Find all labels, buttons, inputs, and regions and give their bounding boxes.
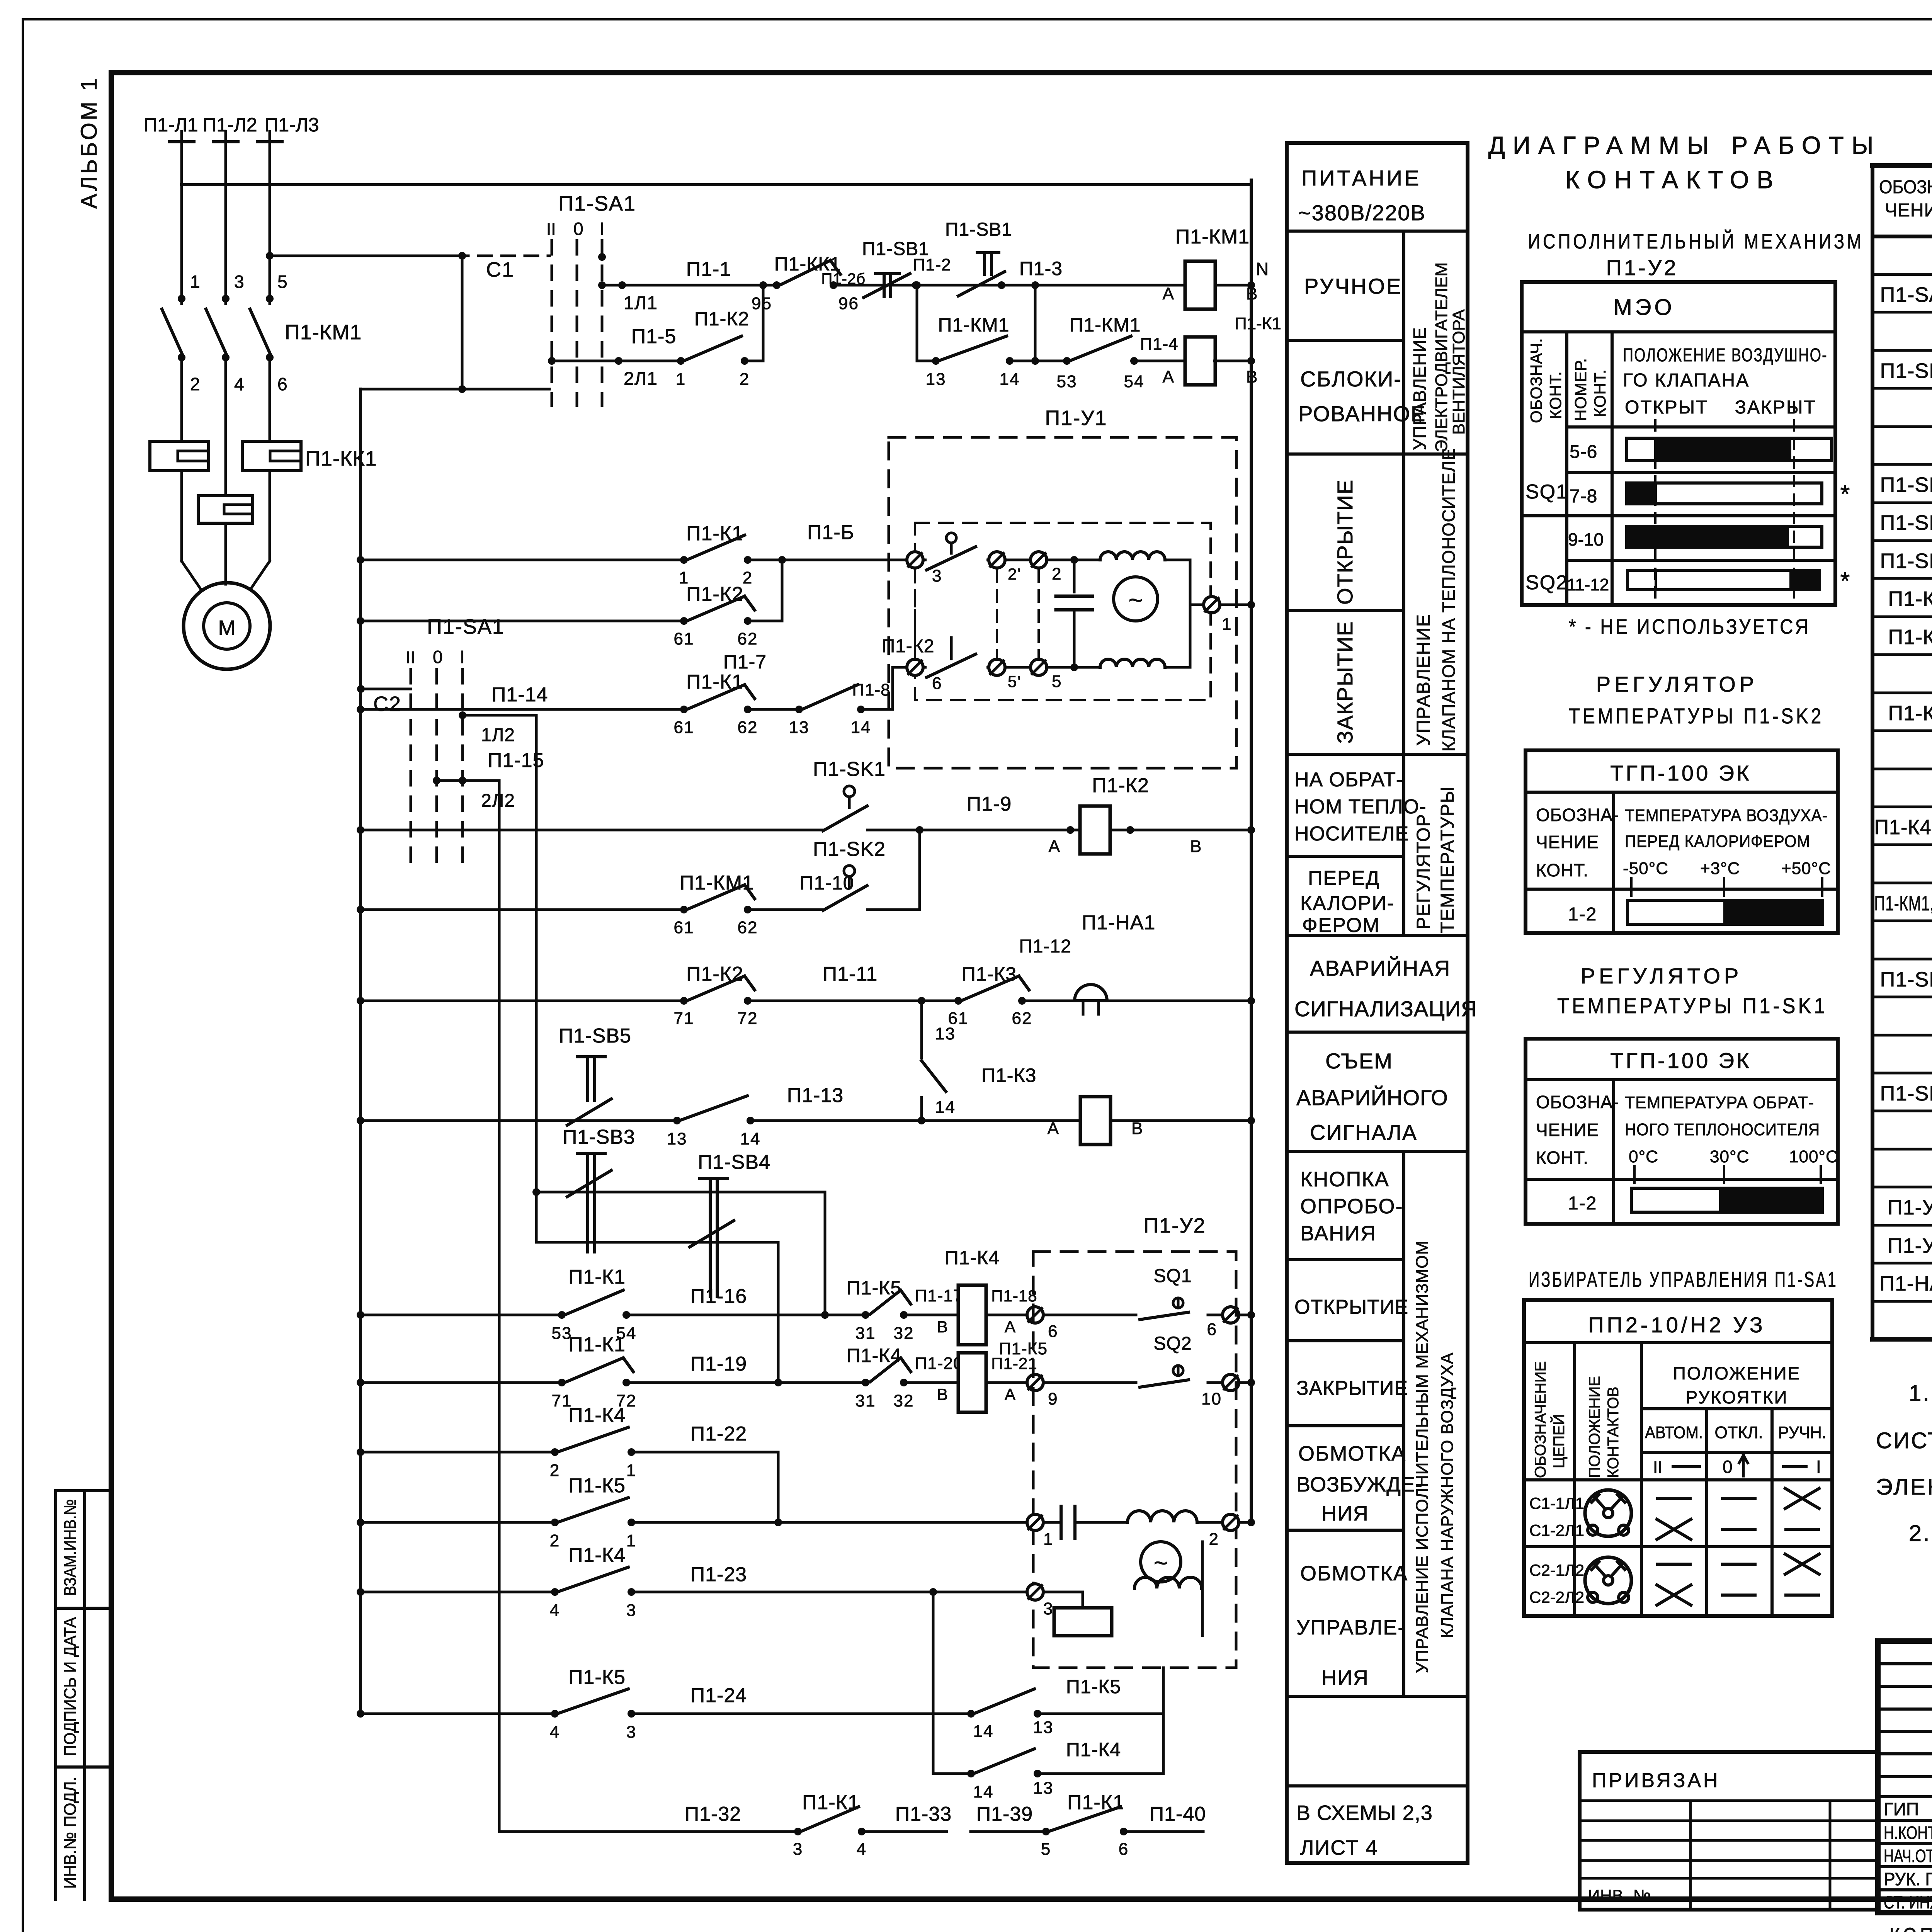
svg-text:КНОПКА: КНОПКА bbox=[1300, 1168, 1389, 1191]
svg-text:КОПИРОВАЛ БАБИНА: КОПИРОВАЛ БАБИНА bbox=[1889, 1923, 1932, 1932]
svg-text:ТЕМПЕРАТУРЫ П1-SK2: ТЕМПЕРАТУРЫ П1-SK2 bbox=[1569, 704, 1824, 728]
svg-text:-50°С: -50°С bbox=[1623, 859, 1668, 878]
svg-text:ПИТАНИЕ: ПИТАНИЕ bbox=[1301, 166, 1421, 190]
svg-text:АЛЬБОМ 1: АЛЬБОМ 1 bbox=[77, 76, 102, 209]
svg-text:ПЕРЕД: ПЕРЕД bbox=[1308, 867, 1380, 889]
svg-text:ЧЕНИЕ: ЧЕНИЕ bbox=[1885, 200, 1932, 221]
svg-text:ТЕМПЕРАТУРЫ: ТЕМПЕРАТУРЫ bbox=[1437, 786, 1458, 933]
svg-text:*: * bbox=[1840, 480, 1850, 508]
svg-text:МЭО: МЭО bbox=[1613, 295, 1675, 320]
svg-text:61: 61 bbox=[674, 629, 694, 648]
svg-text:П1-НА1: П1-НА1 bbox=[1879, 1272, 1932, 1295]
svg-text:НОМ ТЕПЛО-: НОМ ТЕПЛО- bbox=[1294, 796, 1426, 818]
svg-text:1-2: 1-2 bbox=[1568, 1193, 1597, 1214]
svg-text:II: II bbox=[406, 648, 415, 667]
svg-text:КОНТ.: КОНТ. bbox=[1546, 371, 1565, 419]
svg-text:1: 1 bbox=[190, 272, 201, 292]
svg-text:72: 72 bbox=[738, 1009, 758, 1028]
svg-text:10: 10 bbox=[1201, 1389, 1222, 1408]
svg-text:6: 6 bbox=[1048, 1322, 1058, 1341]
svg-text:ПРИВЯЗАН: ПРИВЯЗАН bbox=[1592, 1769, 1720, 1792]
svg-text:ВЕНТИЛЯТОРА: ВЕНТИЛЯТОРА bbox=[1449, 309, 1468, 435]
svg-text:П1-SK1: П1-SK1 bbox=[813, 758, 886, 781]
svg-text:С2-1Л2: С2-1Л2 bbox=[1529, 1561, 1584, 1579]
svg-text:П1-К2: П1-К2 bbox=[1092, 774, 1149, 797]
svg-text:32: 32 bbox=[894, 1391, 914, 1410]
svg-text:П1-К4: П1-К4 bbox=[568, 1404, 626, 1427]
svg-text:ИНВ. №: ИНВ. № bbox=[1588, 1886, 1651, 1905]
svg-text:П1-Б: П1-Б bbox=[807, 521, 854, 544]
svg-text:2': 2' bbox=[1008, 565, 1021, 583]
svg-text:ЧЕНИЕ: ЧЕНИЕ bbox=[1536, 1120, 1599, 1140]
svg-text:П1-К5: П1-К5 bbox=[568, 1475, 626, 1497]
svg-text:61: 61 bbox=[674, 718, 694, 737]
svg-text:РУЧН.: РУЧН. bbox=[1778, 1423, 1827, 1442]
svg-text:62: 62 bbox=[738, 918, 758, 937]
svg-text:13: 13 bbox=[1033, 1718, 1054, 1737]
svg-text:П1-К2: П1-К2 bbox=[686, 963, 743, 985]
svg-text:6: 6 bbox=[1119, 1840, 1129, 1859]
svg-text:6: 6 bbox=[277, 374, 288, 394]
svg-text:SQ2: SQ2 bbox=[1153, 1333, 1192, 1354]
svg-text:АВАРИЙНОГО: АВАРИЙНОГО bbox=[1296, 1085, 1448, 1110]
svg-text:ВЗАМ.ИНВ.№: ВЗАМ.ИНВ.№ bbox=[61, 1499, 80, 1596]
svg-text:П1-КМ1: П1-КМ1 bbox=[285, 321, 362, 344]
svg-text:4: 4 bbox=[550, 1601, 560, 1620]
svg-text:14: 14 bbox=[935, 1098, 956, 1117]
svg-text:НИЯ: НИЯ bbox=[1321, 1666, 1369, 1689]
svg-text:КОНТ.: КОНТ. bbox=[1536, 1148, 1588, 1168]
svg-text:П1-У2: П1-У2 bbox=[1143, 1214, 1206, 1237]
svg-text:П1-33: П1-33 bbox=[895, 1803, 952, 1825]
svg-text:ПОДПИСЬ И ДАТА: ПОДПИСЬ И ДАТА bbox=[61, 1617, 80, 1756]
svg-text:ТГП-100 ЭК: ТГП-100 ЭК bbox=[1610, 1048, 1751, 1073]
svg-text:ОБМОТКА: ОБМОТКА bbox=[1298, 1442, 1406, 1465]
svg-text:П1-К5: П1-К5 bbox=[568, 1666, 626, 1689]
svg-text:+3°С: +3°С bbox=[1700, 859, 1740, 878]
svg-text:ЧЕНИЕ: ЧЕНИЕ bbox=[1536, 832, 1599, 852]
svg-text:П1-К1: П1-К1 bbox=[1067, 1791, 1124, 1814]
svg-text:П1-К1: П1-К1 bbox=[1235, 314, 1281, 333]
svg-text:5-6: 5-6 bbox=[1570, 442, 1597, 462]
svg-text:П1-К4: П1-К4 bbox=[945, 1247, 1000, 1269]
svg-text:П1-SB1: П1-SB1 bbox=[1880, 549, 1932, 573]
svg-text:5: 5 bbox=[277, 272, 288, 292]
svg-text:П1-К1: П1-К1 bbox=[568, 1266, 626, 1288]
svg-text:2: 2 bbox=[740, 370, 750, 389]
svg-text:6: 6 bbox=[932, 674, 942, 693]
svg-text:П1-К2: П1-К2 bbox=[686, 583, 743, 605]
svg-text:2: 2 bbox=[743, 568, 753, 587]
svg-text:ТЕМПЕРАТУРА ОБРАТ-: ТЕМПЕРАТУРА ОБРАТ- bbox=[1625, 1093, 1814, 1112]
svg-text:П1-КМ1,КК1: П1-КМ1,КК1 bbox=[1874, 892, 1932, 915]
svg-text:П1-SB3: П1-SB3 bbox=[563, 1126, 635, 1148]
svg-text:0: 0 bbox=[433, 647, 443, 667]
svg-text:П1-К3: П1-К3 bbox=[1888, 702, 1932, 725]
svg-text:СЪЕМ: СЪЕМ bbox=[1325, 1049, 1393, 1073]
svg-text:ПОЛОЖЕНИЕ: ПОЛОЖЕНИЕ bbox=[1673, 1363, 1801, 1383]
svg-text:ТГП-100 ЭК: ТГП-100 ЭК bbox=[1610, 761, 1751, 785]
svg-text:ОТКРЫТ: ОТКРЫТ bbox=[1625, 397, 1708, 418]
svg-text:С1-2Л1: С1-2Л1 bbox=[1529, 1521, 1584, 1539]
svg-text:ОТКРЫТИЕ: ОТКРЫТИЕ bbox=[1294, 1296, 1408, 1318]
svg-text:П1-SA1: П1-SA1 bbox=[427, 615, 505, 638]
svg-text:3: 3 bbox=[932, 566, 942, 585]
svg-text:ОБОЗНА-: ОБОЗНА- bbox=[1536, 805, 1619, 825]
svg-text:П1-1: П1-1 bbox=[686, 258, 731, 281]
svg-text:П1-24: П1-24 bbox=[690, 1684, 747, 1707]
svg-text:62: 62 bbox=[1012, 1009, 1032, 1028]
svg-text:УПРАВЛЕ-: УПРАВЛЕ- bbox=[1296, 1616, 1405, 1639]
svg-text:А: А bbox=[1048, 1119, 1060, 1138]
svg-text:1: 1 bbox=[626, 1461, 636, 1480]
svg-text:П1-SB4: П1-SB4 bbox=[1880, 511, 1932, 534]
svg-text:РЕГУЛЯТОР: РЕГУЛЯТОР bbox=[1581, 964, 1743, 988]
svg-text:ВОЗБУЖДЕ-: ВОЗБУЖДЕ- bbox=[1296, 1473, 1423, 1496]
svg-text:ИСПОЛНИТЕЛЬНЫЙ МЕХАНИЗМ: ИСПОЛНИТЕЛЬНЫЙ МЕХАНИЗМ bbox=[1528, 230, 1864, 253]
svg-text:Н.КОНТР.: Н.КОНТР. bbox=[1884, 1823, 1932, 1843]
svg-text:С2: С2 bbox=[373, 692, 401, 716]
svg-text:П1-21: П1-21 bbox=[991, 1354, 1037, 1372]
svg-text:ЗАКРЫТ: ЗАКРЫТ bbox=[1735, 397, 1816, 418]
svg-text:П1-17: П1-17 bbox=[915, 1286, 963, 1305]
svg-text:ВАНИЯ: ВАНИЯ bbox=[1300, 1222, 1376, 1245]
svg-text:П1-SA1: П1-SA1 bbox=[558, 192, 636, 215]
svg-text:31: 31 bbox=[855, 1391, 876, 1410]
svg-text:П1-4: П1-4 bbox=[1140, 335, 1178, 354]
svg-text:ГИП: ГИП bbox=[1884, 1799, 1919, 1819]
svg-text:53: 53 bbox=[1057, 372, 1077, 391]
svg-text:П1-К1: П1-К1 bbox=[686, 522, 743, 545]
svg-text:2Л1: 2Л1 bbox=[624, 369, 658, 389]
svg-text:В: В bbox=[1246, 284, 1258, 303]
svg-text:1: 1 bbox=[676, 370, 686, 389]
svg-text:П1-SB3: П1-SB3 bbox=[1880, 473, 1932, 497]
svg-text:31: 31 bbox=[855, 1324, 876, 1343]
svg-text:АВТОМ.: АВТОМ. bbox=[1645, 1423, 1703, 1442]
svg-text:30°С: 30°С bbox=[1710, 1147, 1749, 1166]
svg-text:П1-7: П1-7 bbox=[723, 651, 767, 673]
svg-text:С1-1Л1: С1-1Л1 bbox=[1529, 1494, 1584, 1512]
svg-text:П1-К2: П1-К2 bbox=[882, 636, 935, 656]
svg-text:П1-К2: П1-К2 bbox=[1888, 626, 1932, 649]
svg-text:2Л2: 2Л2 bbox=[481, 791, 515, 811]
svg-text:П1-19: П1-19 bbox=[690, 1353, 747, 1375]
svg-text:4: 4 bbox=[234, 374, 245, 394]
svg-text:14: 14 bbox=[1000, 370, 1020, 389]
svg-text:П1-13: П1-13 bbox=[787, 1084, 844, 1107]
svg-text:3: 3 bbox=[626, 1601, 636, 1620]
svg-text:П1-КМ1: П1-КМ1 bbox=[680, 872, 754, 894]
svg-text:ПП2-10/Н2 УЗ: ПП2-10/Н2 УЗ bbox=[1588, 1313, 1765, 1337]
svg-text:* - НЕ ИСПОЛЬЗУЕТСЯ: * - НЕ ИСПОЛЬЗУЕТСЯ bbox=[1569, 615, 1810, 638]
svg-text:П1-К3: П1-К3 bbox=[981, 1065, 1036, 1086]
svg-text:П1-SK2: П1-SK2 bbox=[1880, 968, 1932, 991]
svg-text:П1-К4,К5: П1-К4,К5 bbox=[1874, 816, 1932, 839]
svg-text:ЭЛЕКТРОДВИГАТЕЛЕМ: ЭЛЕКТРОДВИГАТЕЛЕМ bbox=[1432, 262, 1451, 452]
svg-text:М: М bbox=[218, 616, 236, 639]
svg-text:1Л1: 1Л1 bbox=[624, 293, 658, 313]
svg-text:П1-SB5: П1-SB5 bbox=[1880, 359, 1932, 383]
svg-text:~: ~ bbox=[1128, 586, 1143, 614]
svg-text:ПОЛОЖЕНИЕ: ПОЛОЖЕНИЕ bbox=[1586, 1376, 1603, 1478]
svg-text:П1-SK2: П1-SK2 bbox=[813, 838, 886, 861]
svg-text:П1-НА1: П1-НА1 bbox=[1082, 912, 1156, 934]
svg-text:2: 2 bbox=[1209, 1530, 1219, 1549]
svg-text:С1: С1 bbox=[486, 258, 514, 281]
svg-text:54: 54 bbox=[1124, 372, 1145, 391]
svg-text:РУК. ГР.: РУК. ГР. bbox=[1884, 1869, 1932, 1889]
svg-text:II: II bbox=[546, 220, 556, 239]
svg-text:РУКОЯТКИ: РУКОЯТКИ bbox=[1685, 1387, 1788, 1407]
svg-text:П1-18: П1-18 bbox=[991, 1287, 1037, 1305]
svg-text:А: А bbox=[1005, 1385, 1016, 1403]
svg-text:9-10: 9-10 bbox=[1568, 529, 1604, 549]
svg-text:ТЕМПЕРАТУРА ВОЗДУХА-: ТЕМПЕРАТУРА ВОЗДУХА- bbox=[1625, 806, 1828, 825]
svg-text:13: 13 bbox=[667, 1129, 687, 1148]
svg-text:П1-22: П1-22 bbox=[690, 1423, 747, 1445]
svg-text:1Л2: 1Л2 bbox=[481, 725, 515, 745]
svg-text:П1-КМ1: П1-КМ1 bbox=[1175, 226, 1250, 248]
svg-text:П1-2: П1-2 bbox=[913, 255, 951, 274]
svg-text:14: 14 bbox=[973, 1722, 994, 1741]
svg-text:П1-SB5: П1-SB5 bbox=[559, 1025, 631, 1047]
svg-text:ОТКЛ.: ОТКЛ. bbox=[1715, 1423, 1763, 1442]
svg-text:РЕГУЛЯТОР: РЕГУЛЯТОР bbox=[1413, 813, 1434, 929]
svg-text:N: N bbox=[1256, 259, 1269, 279]
svg-text:11-12: 11-12 bbox=[1567, 575, 1609, 594]
svg-text:62: 62 bbox=[738, 718, 758, 737]
svg-text:П1-SB4: П1-SB4 bbox=[698, 1151, 770, 1173]
svg-text:П1-20: П1-20 bbox=[915, 1354, 963, 1373]
svg-text:SQ2: SQ2 bbox=[1526, 571, 1568, 594]
svg-text:НОГО ТЕПЛОНОСИТЕЛЯ: НОГО ТЕПЛОНОСИТЕЛЯ bbox=[1625, 1120, 1820, 1139]
svg-text:1: 1 bbox=[1222, 615, 1232, 634]
svg-text:П1-К4: П1-К4 bbox=[568, 1544, 626, 1566]
svg-text:П1-9: П1-9 bbox=[967, 793, 1012, 815]
svg-text:П1-SB1: П1-SB1 bbox=[945, 219, 1012, 240]
svg-text:ДИАГРАММЫ РАБОТЫ: ДИАГРАММЫ РАБОТЫ bbox=[1488, 131, 1881, 159]
svg-text:П1-SA1: П1-SA1 bbox=[1880, 283, 1932, 306]
svg-text:ФЕРОМ: ФЕРОМ bbox=[1302, 914, 1380, 937]
svg-text:*: * bbox=[1840, 567, 1850, 595]
svg-text:ЗАКРЫТИЕ: ЗАКРЫТИЕ bbox=[1296, 1377, 1408, 1400]
svg-text:П1-15: П1-15 bbox=[488, 749, 544, 772]
svg-text:УПРАВЛЕНИЕ: УПРАВЛЕНИЕ bbox=[1410, 327, 1430, 450]
svg-text:АВАРИЙНАЯ: АВАРИЙНАЯ bbox=[1310, 956, 1451, 980]
svg-text:П1-Л1: П1-Л1 bbox=[143, 114, 198, 136]
svg-text:SQ1: SQ1 bbox=[1526, 481, 1568, 503]
svg-text:96: 96 bbox=[838, 294, 859, 313]
svg-text:14: 14 bbox=[740, 1129, 761, 1148]
svg-text:П1-16: П1-16 bbox=[690, 1285, 747, 1308]
svg-text:П1-У1: П1-У1 bbox=[1888, 1196, 1932, 1219]
svg-text:СБЛОКИ-: СБЛОКИ- bbox=[1300, 367, 1402, 391]
svg-text:НОМЕР.: НОМЕР. bbox=[1571, 358, 1590, 421]
svg-text:П1-КМ1: П1-КМ1 bbox=[938, 314, 1010, 336]
svg-text:5: 5 bbox=[1052, 672, 1062, 691]
svg-text:ИНВ.№ ПОДЛ.: ИНВ.№ ПОДЛ. bbox=[61, 1777, 80, 1889]
svg-text:П1-23: П1-23 bbox=[690, 1563, 747, 1586]
svg-text:П1-У2: П1-У2 bbox=[1606, 255, 1679, 280]
svg-text:П1-КМ1: П1-КМ1 bbox=[1070, 314, 1141, 336]
svg-text:УПРАВЛЕНИЕ: УПРАВЛЕНИЕ bbox=[1413, 614, 1434, 746]
svg-text:1. СХЕМА ВЫПОЛНЕНА ДЛЯ СИСТЕМЫ: 1. СХЕМА ВЫПОЛНЕНА ДЛЯ СИСТЕМЫ П1 И АНАЛ… bbox=[1909, 1381, 1932, 1406]
svg-text:ЛИСТ 4: ЛИСТ 4 bbox=[1300, 1836, 1378, 1859]
svg-text:В: В bbox=[1190, 837, 1202, 856]
svg-text:РЕГУЛЯТОР: РЕГУЛЯТОР bbox=[1596, 672, 1758, 696]
svg-text:ИЗБИРАТЕЛЬ УПРАВЛЕНИЯ П1-SA1: ИЗБИРАТЕЛЬ УПРАВЛЕНИЯ П1-SA1 bbox=[1529, 1267, 1838, 1291]
svg-text:УПРАВЛЕНИЕ ИСПОЛНИТЕЛЬНЫМ МЕ: УПРАВЛЕНИЕ ИСПОЛНИТЕЛЬНЫМ МЕХАНИЗМОМ bbox=[1413, 1240, 1432, 1673]
svg-text:НИЯ: НИЯ bbox=[1321, 1502, 1369, 1525]
svg-text:П1-5: П1-5 bbox=[631, 325, 677, 348]
svg-text:3: 3 bbox=[1043, 1599, 1053, 1618]
svg-text:КОНТ.: КОНТ. bbox=[1536, 860, 1588, 880]
svg-text:П1-40: П1-40 bbox=[1150, 1803, 1206, 1825]
svg-text:П1-К1: П1-К1 bbox=[1888, 587, 1932, 611]
svg-text:П1-Л3: П1-Л3 bbox=[264, 114, 319, 136]
svg-text:2: 2 bbox=[190, 374, 201, 394]
svg-text:+50°С: +50°С bbox=[1781, 859, 1831, 878]
svg-text:ПЕРЕД КАЛОРИФЕРОМ: ПЕРЕД КАЛОРИФЕРОМ bbox=[1625, 832, 1810, 851]
svg-text:0: 0 bbox=[573, 219, 583, 239]
svg-text:II: II bbox=[1653, 1458, 1662, 1477]
svg-text:НОСИТЕЛЕ: НОСИТЕЛЕ bbox=[1294, 823, 1409, 845]
svg-text:ОБМОТКА: ОБМОТКА bbox=[1300, 1562, 1408, 1585]
svg-text:В: В bbox=[1246, 367, 1258, 386]
svg-text:~: ~ bbox=[1154, 1550, 1168, 1577]
svg-text:I: I bbox=[460, 647, 465, 667]
svg-text:СИСТЕМ П2,П3 С ЗАМЕНОЙ ИНДЕКСА: СИСТЕМ П2,П3 С ЗАМЕНОЙ ИНДЕКСА „П1" В ОБ… bbox=[1876, 1428, 1932, 1453]
svg-text:13: 13 bbox=[926, 370, 946, 389]
svg-text:КОНТАКТОВ: КОНТАКТОВ bbox=[1565, 166, 1781, 194]
svg-text:П1-У1: П1-У1 bbox=[1045, 406, 1107, 430]
svg-text:13: 13 bbox=[935, 1024, 956, 1043]
svg-text:4: 4 bbox=[857, 1840, 867, 1859]
svg-text:РОВАННОЕ: РОВАННОЕ bbox=[1298, 401, 1426, 426]
svg-text:П1-SK1: П1-SK1 bbox=[1880, 1082, 1932, 1105]
svg-text:П1-К4: П1-К4 bbox=[1066, 1739, 1121, 1760]
svg-text:КЛАПАНА НАРУЖНОГО ВОЗДУХА: КЛАПАНА НАРУЖНОГО ВОЗДУХА bbox=[1438, 1352, 1457, 1638]
svg-text:100°С: 100°С bbox=[1789, 1147, 1838, 1166]
svg-text:5': 5' bbox=[1008, 672, 1021, 690]
svg-text:ОТКРЫТИЕ: ОТКРЫТИЕ bbox=[1333, 479, 1357, 605]
svg-text:71: 71 bbox=[674, 1009, 694, 1028]
svg-text:~380В/220В: ~380В/220В bbox=[1298, 201, 1426, 225]
svg-text:П1-11: П1-11 bbox=[823, 963, 878, 985]
svg-text:3: 3 bbox=[234, 272, 245, 292]
svg-text:П1-14: П1-14 bbox=[492, 684, 548, 706]
svg-text:А: А bbox=[1163, 367, 1175, 386]
svg-text:0: 0 bbox=[1723, 1457, 1733, 1477]
svg-text:7-8: 7-8 bbox=[1570, 486, 1597, 507]
svg-text:П1-3: П1-3 bbox=[1019, 258, 1063, 279]
svg-text:SQ1: SQ1 bbox=[1153, 1266, 1192, 1286]
svg-text:3: 3 bbox=[793, 1840, 803, 1859]
svg-text:ОБОЗНАЧ.: ОБОЗНАЧ. bbox=[1527, 338, 1545, 423]
svg-text:9: 9 bbox=[1048, 1389, 1058, 1408]
svg-text:0°С: 0°С bbox=[1629, 1147, 1658, 1166]
svg-text:I: I bbox=[1816, 1457, 1821, 1477]
svg-text:СИГНАЛА: СИГНАЛА bbox=[1310, 1120, 1417, 1145]
svg-text:1: 1 bbox=[1043, 1530, 1053, 1549]
svg-text:П1-К5: П1-К5 bbox=[1066, 1676, 1121, 1697]
svg-text:СИГНАЛИЗАЦИЯ: СИГНАЛИЗАЦИЯ bbox=[1294, 997, 1477, 1021]
svg-text:ОБОЗНА-: ОБОЗНА- bbox=[1879, 177, 1932, 197]
svg-text:НА ОБРАТ-: НА ОБРАТ- bbox=[1294, 769, 1403, 791]
svg-text:П1-К1: П1-К1 bbox=[568, 1333, 626, 1356]
svg-text:П1-12: П1-12 bbox=[1019, 936, 1071, 957]
svg-text:ОБОЗНАЧЕНИЕ: ОБОЗНАЧЕНИЕ bbox=[1532, 1361, 1549, 1478]
svg-text:П1-2б: П1-2б bbox=[821, 270, 866, 287]
svg-text:П1-У2: П1-У2 bbox=[1888, 1234, 1932, 1257]
svg-text:ОБОЗНА-: ОБОЗНА- bbox=[1536, 1092, 1619, 1112]
svg-text:А: А bbox=[1049, 837, 1061, 856]
svg-text:П1-32: П1-32 bbox=[685, 1803, 741, 1825]
svg-text:П1-КК1: П1-КК1 bbox=[305, 447, 377, 470]
svg-text:ГО КЛАПАНА: ГО КЛАПАНА bbox=[1623, 370, 1750, 391]
svg-text:14: 14 bbox=[851, 718, 871, 737]
svg-text:С2-2Л2: С2-2Л2 bbox=[1529, 1588, 1584, 1606]
svg-text:ЭЛЕКТРОАППАРАТУРЫ НА „П2",„П3": ЭЛЕКТРОАППАРАТУРЫ НА „П2",„П3" bbox=[1876, 1475, 1932, 1500]
svg-text:П1-8: П1-8 bbox=[852, 680, 890, 699]
svg-text:ТЕМПЕРАТУРЫ П1-SK1: ТЕМПЕРАТУРЫ П1-SK1 bbox=[1557, 993, 1828, 1018]
svg-text:32: 32 bbox=[894, 1324, 914, 1343]
svg-text:ЦЕПЕЙ: ЦЕПЕЙ bbox=[1550, 1414, 1568, 1468]
svg-text:ОПРОБО-: ОПРОБО- bbox=[1300, 1195, 1403, 1218]
svg-text:РУЧНОЕ: РУЧНОЕ bbox=[1304, 274, 1402, 298]
svg-text:КОНТ.: КОНТ. bbox=[1591, 369, 1609, 417]
svg-text:В: В bbox=[937, 1385, 949, 1403]
svg-text:А: А bbox=[1005, 1318, 1016, 1336]
svg-text:СТ. ИНЖ.: СТ. ИНЖ. bbox=[1884, 1892, 1932, 1912]
svg-text:1-2: 1-2 bbox=[1568, 904, 1597, 925]
svg-text:6: 6 bbox=[1207, 1320, 1217, 1339]
svg-text:62: 62 bbox=[738, 629, 758, 648]
svg-text:ЗАКРЫТИЕ: ЗАКРЫТИЕ bbox=[1333, 621, 1357, 744]
svg-text:П1-39: П1-39 bbox=[976, 1803, 1033, 1825]
svg-text:ПОЛОЖЕНИЕ ВОЗДУШНО-: ПОЛОЖЕНИЕ ВОЗДУШНО- bbox=[1623, 345, 1828, 366]
svg-text:3: 3 bbox=[626, 1723, 636, 1742]
svg-text:1: 1 bbox=[626, 1531, 636, 1550]
svg-text:13: 13 bbox=[1033, 1779, 1054, 1798]
svg-text:4: 4 bbox=[550, 1723, 560, 1742]
svg-text:13: 13 bbox=[789, 718, 810, 737]
svg-text:КОНТАКТОВ: КОНТАКТОВ bbox=[1605, 1387, 1622, 1478]
svg-text:НАЧ.ОТД.: НАЧ.ОТД. bbox=[1884, 1846, 1932, 1866]
svg-text:КЛАПАНОМ НА ТЕПЛОНОСИТЕЛЕ: КЛАПАНОМ НА ТЕПЛОНОСИТЕЛЕ bbox=[1439, 448, 1459, 752]
svg-text:61: 61 bbox=[674, 918, 694, 937]
svg-text:2: 2 bbox=[1052, 565, 1062, 583]
svg-text:14: 14 bbox=[973, 1782, 994, 1801]
svg-text:I: I bbox=[600, 219, 605, 239]
svg-text:П1-Л2: П1-Л2 bbox=[202, 114, 257, 136]
svg-text:В СХЕМЫ 2,3: В СХЕМЫ 2,3 bbox=[1296, 1801, 1433, 1825]
svg-text:2. ПЕРЕЧЕНЬ ЭЛЕМЕНТОВ ДАН НА О: 2. ПЕРЕЧЕНЬ ЭЛЕМЕНТОВ ДАН НА ОДНУ СИСТЕМ… bbox=[1909, 1521, 1932, 1546]
svg-text:П1-К2: П1-К2 bbox=[694, 308, 749, 330]
svg-text:2: 2 bbox=[550, 1531, 560, 1550]
svg-text:А: А bbox=[1163, 284, 1175, 303]
svg-text:В: В bbox=[937, 1318, 949, 1336]
svg-text:КАЛОРИ-: КАЛОРИ- bbox=[1300, 892, 1395, 915]
svg-text:2: 2 bbox=[550, 1461, 560, 1480]
svg-text:5: 5 bbox=[1041, 1840, 1051, 1859]
